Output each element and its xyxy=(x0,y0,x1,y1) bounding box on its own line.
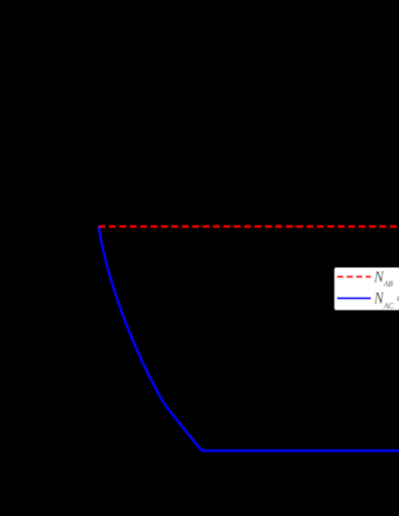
svg-text:AC: AC xyxy=(383,301,394,310)
svg-text:AB: AB xyxy=(383,280,393,289)
